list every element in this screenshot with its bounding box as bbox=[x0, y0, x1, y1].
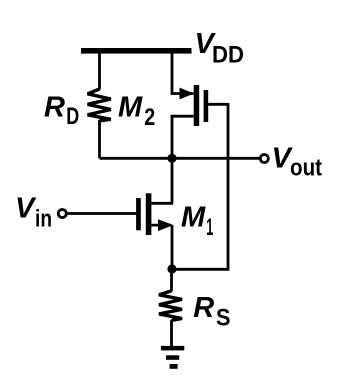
wire VDD rail to RD bbox=[98, 53, 101, 90]
transistor M1 gate bar bbox=[136, 198, 141, 230]
svg-text:M: M bbox=[181, 202, 206, 234]
svg-text:V: V bbox=[15, 192, 37, 224]
wire M2 gate down to source node bbox=[227, 103, 230, 269]
node source dot bbox=[167, 264, 176, 273]
svg-text:in: in bbox=[35, 206, 52, 233]
wire M2 source lead bbox=[171, 92, 194, 95]
resistor RD bbox=[88, 89, 111, 121]
transistor M1 source arrow (NMOS) bbox=[158, 219, 174, 231]
transistor M2 channel bar bbox=[194, 85, 200, 126]
svg-text:D: D bbox=[66, 103, 79, 130]
wire M1 drain lead bbox=[152, 202, 174, 205]
svg-text:S: S bbox=[216, 305, 231, 332]
resistor RS bbox=[159, 291, 182, 321]
wire source node horizontal bbox=[172, 268, 229, 271]
terminal Vin open circle bbox=[58, 210, 66, 218]
svg-text:2: 2 bbox=[144, 104, 155, 131]
wire RD bottom to output line corner bbox=[100, 120, 102, 157]
wire M2 drain down to output node and M1 drain bbox=[171, 115, 174, 203]
wire RS to ground bbox=[170, 320, 173, 347]
wire VDD rail to M2 source bbox=[171, 53, 174, 95]
transistor M2 source arrow (PMOS) bbox=[180, 88, 195, 100]
wire M2 gate lead bbox=[208, 103, 228, 106]
wire M1 source down to bottom node bbox=[171, 225, 174, 269]
svg-text:R: R bbox=[44, 92, 65, 124]
VDD power rail bbox=[81, 48, 192, 54]
wire bottom node to RS bbox=[170, 268, 173, 292]
transistor M2 gate bar bbox=[204, 90, 209, 122]
svg-text:1: 1 bbox=[206, 214, 213, 241]
transistor M1 channel bar bbox=[146, 193, 152, 235]
wire output node line bbox=[100, 157, 260, 160]
node output dot bbox=[167, 154, 176, 163]
svg-text:M: M bbox=[118, 91, 143, 123]
terminal Vout open circle bbox=[260, 155, 268, 163]
ground symbol bbox=[161, 346, 184, 369]
wire M2 drain lead bbox=[171, 115, 194, 118]
wire M1 source lead bbox=[152, 224, 172, 227]
svg-text:R: R bbox=[193, 292, 214, 324]
svg-text:out: out bbox=[290, 155, 322, 182]
svg-text:DD: DD bbox=[212, 41, 244, 68]
wire M1 gate lead from input bbox=[68, 212, 137, 215]
